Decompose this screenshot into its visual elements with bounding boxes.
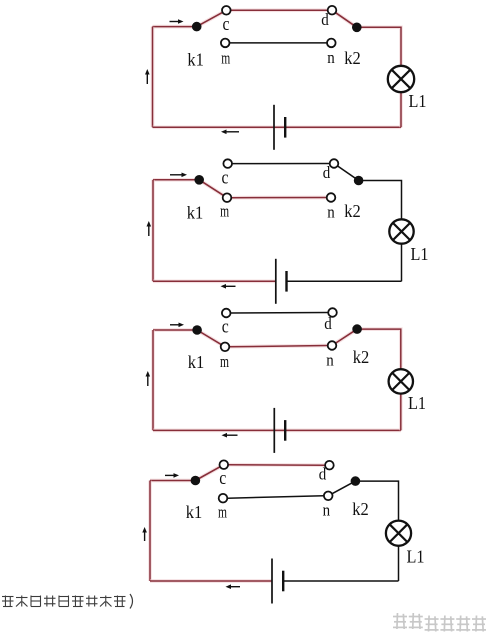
current arrow right (top wire, circuit 2): [170, 173, 187, 178]
wire circuit1 left vertical: [151, 27, 155, 128]
svg-text:d: d: [319, 465, 327, 484]
svg-text:L1: L1: [408, 393, 426, 413]
wire circuit2 bottom left (to battery long plate): [153, 279, 276, 283]
svg-text:k1: k1: [188, 352, 205, 372]
wire circuit2 top-left horizontal (battery + to k1): [153, 178, 199, 182]
svg-text:k2: k2: [344, 48, 361, 68]
wire circuit4 bottom right (battery short plate to lamp branch): [283, 580, 398, 582]
wire circuit3 right vertical upper (k2 to lamp): [357, 329, 401, 369]
current arrow up (left wire, circuit 3): [146, 371, 151, 386]
svg-text:n: n: [323, 501, 331, 520]
switch k1 common pole node (circuit 3): [192, 325, 202, 335]
svg-text:L1: L1: [409, 91, 427, 111]
svg-text:L1: L1: [411, 244, 429, 264]
svg-text:m: m: [218, 503, 227, 522]
switch k1 blade (circuit 2): [199, 180, 227, 198]
contact node m (circuit 4): [219, 494, 228, 503]
contact node d (circuit 3): [328, 308, 337, 317]
wire circuit4 right vertical upper (k2 to lamp): [355, 481, 398, 520]
battery B1 (long plate +, short plate -): [274, 105, 285, 150]
wire circuit3 left vertical: [151, 330, 155, 430]
svg-text:c: c: [222, 317, 229, 338]
svg-text:k2: k2: [353, 347, 370, 367]
wire circuit4 right vertical lower (lamp to battery -): [398, 546, 400, 581]
wire circuit2 right vertical lower (lamp to battery -): [401, 244, 403, 282]
caption text: 箭头表示电流的方向) bottom-left: [2, 594, 133, 609]
svg-text:n: n: [327, 203, 335, 222]
svg-text:n: n: [327, 48, 335, 67]
battery B4 (long plate +, short plate -): [272, 559, 283, 604]
svg-text:k1: k1: [187, 50, 204, 70]
svg-text:m: m: [221, 48, 230, 67]
svg-text:c: c: [222, 168, 229, 189]
contact node d (circuit 1): [328, 6, 337, 15]
switch k2 blade (circuit 2): [334, 164, 359, 181]
wire circuit2 node m to node n: [231, 196, 326, 200]
wire circuit4 node m to node n: [227, 496, 324, 498]
switch k1 blade (circuit 1): [197, 10, 227, 26]
contact node m (circuit 2): [223, 193, 232, 202]
switch k2 common pole node (circuit 4): [351, 476, 361, 486]
current arrow left (bottom wire, circuit 4): [226, 584, 241, 589]
watermark: 头条@电力阿鹏 bottom-right: [393, 613, 486, 632]
current arrow left (bottom wire, circuit 1): [221, 130, 239, 135]
wire circuit3 top-left horizontal (battery + to k1): [153, 328, 197, 332]
current arrow up (left wire, circuit 4): [142, 527, 147, 541]
wire circuit1 top-left horizontal (battery + to k1): [153, 25, 197, 29]
contact node n (circuit 2): [327, 193, 336, 202]
wire circuit2 right vertical upper (k2 to lamp): [359, 181, 402, 220]
switch k2 blade (circuit 3): [332, 329, 357, 345]
contact node m (circuit 3): [221, 343, 230, 352]
svg-text:k2: k2: [352, 499, 369, 519]
switch k1 common pole node (circuit 2): [194, 175, 204, 185]
wire circuit2 node c to node d: [232, 163, 330, 165]
current arrow right (top wire, circuit 4): [165, 473, 179, 478]
switch k1 common pole node (circuit 1): [192, 22, 202, 32]
svg-text:d: d: [321, 10, 329, 29]
wire circuit3 bottom (through battery): [153, 429, 401, 433]
current arrow up (left wire, circuit 1): [145, 69, 150, 84]
current arrow up (left wire, circuit 2): [147, 221, 152, 236]
contact node c (circuit 4): [220, 460, 229, 469]
lamp L1 (circuit 4): [386, 521, 411, 546]
wire circuit1 node c to node d: [231, 8, 328, 12]
wire circuit2 left vertical: [151, 180, 155, 281]
switch k2 blade (circuit 4): [328, 481, 355, 496]
switch k2 common pole node (circuit 1): [352, 23, 362, 33]
wire circuit3 node c to node d: [231, 312, 329, 315]
svg-text:d: d: [324, 314, 332, 333]
wire circuit1 right vertical upper (k2 to lamp): [357, 27, 401, 66]
contact node c (circuit 3): [222, 309, 231, 318]
wire circuit1 node m to node n: [230, 42, 328, 44]
lamp L1 (circuit 1): [388, 66, 414, 92]
wire circuit1 bottom (through battery): [153, 125, 402, 129]
wire circuit4 top-left horizontal (battery + to k1): [150, 479, 195, 483]
wire circuit3 node m to node n: [229, 346, 327, 347]
switch k1 blade (circuit 4): [195, 465, 223, 481]
svg-text:k2: k2: [344, 201, 361, 221]
svg-text:m: m: [220, 352, 229, 371]
battery B3 (long plate +, short plate -): [274, 408, 285, 453]
wire circuit4 node c to node d: [228, 463, 325, 467]
wire circuit4 left vertical: [148, 481, 152, 582]
current arrow left (bottom wire, circuit 2): [221, 284, 236, 289]
wire circuit3 right vertical lower (lamp to battery -): [399, 394, 403, 431]
svg-text:k1: k1: [187, 203, 204, 223]
current arrow right (top wire, circuit 3): [170, 323, 184, 328]
svg-text:k1: k1: [186, 502, 203, 522]
wire circuit1 right vertical lower (lamp to battery -): [399, 92, 403, 127]
svg-text:c: c: [219, 468, 226, 489]
wire circuit2 bottom right (battery short plate to lamp branch): [287, 280, 402, 282]
svg-text:d: d: [323, 163, 331, 182]
switch k2 common pole node (circuit 3): [352, 324, 362, 334]
current arrow right (top wire, circuit 1): [170, 19, 184, 24]
svg-text:m: m: [220, 202, 229, 221]
switch k2 common pole node (circuit 2): [354, 176, 364, 186]
svg-text:n: n: [326, 351, 334, 370]
lamp L1 (circuit 2): [389, 219, 413, 243]
contact node n (circuit 3): [328, 341, 337, 350]
contact node c (circuit 1): [222, 6, 231, 15]
lamp L1 (circuit 3): [389, 369, 413, 393]
contact node n (circuit 4): [324, 492, 333, 501]
current arrow left (bottom wire, circuit 3): [222, 433, 238, 438]
contact node c (circuit 2): [223, 159, 232, 168]
wire circuit4 bottom left (to battery long plate): [150, 579, 272, 583]
switch k1 blade (circuit 3): [197, 330, 225, 347]
contact node d (circuit 2): [330, 159, 339, 168]
switch k2 blade (circuit 1): [332, 10, 357, 27]
contact node m (circuit 1): [221, 39, 230, 48]
battery B2 (long plate +, short plate -): [276, 259, 287, 304]
svg-text:c: c: [223, 14, 230, 35]
contact node d (circuit 4): [325, 461, 334, 470]
svg-text:L1: L1: [407, 547, 425, 567]
switch k1 common pole node (circuit 4): [191, 476, 201, 486]
contact node n (circuit 1): [327, 39, 336, 48]
